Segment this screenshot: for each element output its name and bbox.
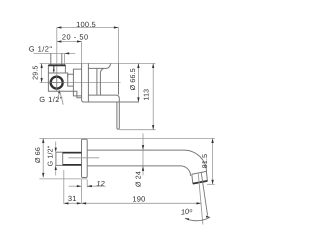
thread root bottom <box>63 164 82 166</box>
dim line 31/190 <box>64 202 202 204</box>
svg-text:Ø 66.5: Ø 66.5 <box>129 68 137 90</box>
leader G1/2 top <box>34 52 76 54</box>
dim line 20 - 50 <box>57 41 82 43</box>
top pipe right wall <box>61 53 63 65</box>
leader V right stroke <box>60 91 64 105</box>
svg-text:20 - 50: 20 - 50 <box>62 33 89 42</box>
inlet circle G1/2 <box>51 77 63 89</box>
neck inner vertical <box>96 68 98 95</box>
bottom line plate/handle + ext <box>84 101 140 103</box>
svg-text:Ø 24: Ø 24 <box>134 171 142 187</box>
dim line 29.5 <box>41 63 43 82</box>
svg-text:G 1/2": G 1/2" <box>46 145 54 166</box>
thread root top <box>63 152 82 154</box>
elbow step right <box>65 73 67 77</box>
dim line 12 left tail <box>69 185 82 187</box>
svg-text:12: 12 <box>96 179 105 188</box>
svg-text:190: 190 <box>132 194 145 203</box>
svg-text:113: 113 <box>144 89 151 101</box>
ext 31 left <box>63 170 65 204</box>
dim line 12 right tail <box>87 185 105 187</box>
extension right 100.5 <box>118 28 120 64</box>
leader V left stroke <box>57 91 60 102</box>
plate left edge <box>82 63 84 102</box>
dim line dia66 <box>42 138 44 177</box>
aerator band <box>193 181 208 184</box>
dim line dia66.5 <box>137 63 139 102</box>
plate right edge <box>87 63 89 102</box>
svg-text:Ø 66: Ø 66 <box>34 147 42 163</box>
svg-text:G 1/2": G 1/2" <box>39 95 63 104</box>
angle arc <box>185 217 210 221</box>
wall flange <box>82 139 88 177</box>
81.5 bottom tick <box>207 183 215 185</box>
svg-text:100.5: 100.5 <box>76 20 96 29</box>
dim line 100.5 <box>57 27 119 29</box>
inner bend <box>181 166 191 176</box>
thread pipe G1/2 <box>56 152 82 165</box>
knob right edge <box>118 63 120 94</box>
outlet cap top <box>192 171 207 174</box>
circle crosshair h <box>49 82 65 84</box>
113 bottom extension <box>120 129 156 131</box>
tube top <box>87 149 184 151</box>
cartridge housing <box>73 69 81 96</box>
svg-text:G 1/2": G 1/2" <box>29 44 53 53</box>
outlet cap sides <box>192 171 208 183</box>
lower tick line <box>39 178 87 180</box>
svg-text:29.5: 29.5 <box>32 65 39 79</box>
outer bend <box>184 150 207 172</box>
tube bottom <box>87 165 180 167</box>
dim line 81.5 <box>212 138 214 184</box>
fitting bottom <box>48 72 65 74</box>
long top reference line <box>39 137 215 139</box>
elbow outline <box>48 73 81 98</box>
angle ref line <box>198 173 203 225</box>
inlet axis centerline <box>56 28 58 92</box>
G1/2 pointer top shaft <box>55 142 57 148</box>
circle crosshair v <box>56 75 58 92</box>
spindle stub <box>68 74 74 86</box>
bore axis line <box>68 157 99 159</box>
extension 20-50 right <box>81 42 83 64</box>
top pipe left wall <box>50 53 52 65</box>
G1/2 pointer bottom shaft <box>55 170 57 176</box>
horizontal centerline <box>40 82 121 84</box>
fitting body sides <box>48 65 65 73</box>
neck S-curve <box>100 68 103 95</box>
neck bottom + lever right <box>88 95 119 128</box>
lever left edge + tip <box>117 102 119 129</box>
ext at wall x=81.5 <box>81 180 83 204</box>
neck top + curve to knob <box>88 63 110 68</box>
dim line dia24 <box>142 133 144 175</box>
top reference/extension line <box>40 62 156 64</box>
dim line 113 <box>152 63 154 129</box>
inner leader shaft <box>53 66 55 70</box>
svg-text:81.5: 81.5 <box>202 154 209 168</box>
angle line 10deg <box>201 172 207 215</box>
thread relief line <box>62 152 64 165</box>
fitting top thick edge <box>48 64 65 66</box>
svg-text:31: 31 <box>68 194 77 203</box>
ext 12 right <box>86 180 88 188</box>
